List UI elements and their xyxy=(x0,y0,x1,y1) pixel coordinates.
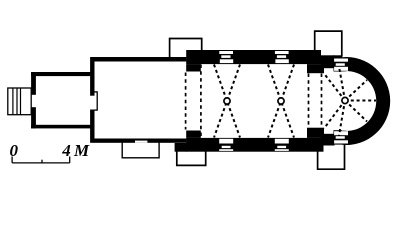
svg-text:M: M xyxy=(73,141,90,160)
svg-text:0: 0 xyxy=(10,141,19,160)
svg-text:4: 4 xyxy=(61,141,71,160)
